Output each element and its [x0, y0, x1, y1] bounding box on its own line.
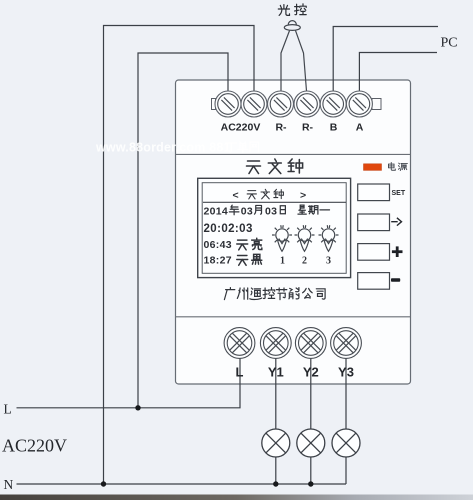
svg-text:B: B	[330, 122, 338, 134]
svg-text:R-: R-	[275, 122, 287, 134]
svg-text:PC: PC	[441, 36, 458, 51]
bottom edge bar	[0, 495, 473, 500]
terminal AC220V-L screw	[215, 91, 241, 117]
label -	[391, 278, 400, 281]
svg-text:<: <	[233, 189, 239, 201]
label ->	[391, 218, 401, 226]
button arrow	[358, 214, 390, 231]
terminal Y3 screw	[331, 328, 362, 359]
company name 广州通控节能公司	[224, 288, 325, 300]
junction dot on L line	[135, 405, 140, 410]
button minus	[358, 273, 390, 290]
button plus	[358, 244, 390, 261]
terminal R- left screw	[268, 91, 294, 117]
wire Y2 to lamp 2	[310, 359, 312, 430]
svg-text:L: L	[236, 365, 244, 380]
terminal strip top: left end tab	[212, 99, 216, 110]
label +	[392, 246, 403, 257]
svg-text:06:43: 06:43	[204, 239, 232, 251]
svg-text:Y2: Y2	[303, 365, 319, 380]
terminal L screw	[224, 328, 255, 359]
wire N line	[17, 483, 347, 485]
svg-text:SET: SET	[392, 190, 406, 197]
junction dot lamp1-N	[273, 481, 278, 486]
label 光控	[278, 4, 306, 16]
svg-text:A: A	[356, 122, 364, 134]
title 天文钟	[247, 159, 303, 174]
svg-text:AC220V: AC220V	[221, 122, 261, 134]
label 电源	[388, 163, 407, 171]
wire N route: N line up left side over to terminal AC220V-N	[104, 26, 255, 485]
svg-text:18:27: 18:27	[204, 255, 232, 267]
terminal Y2 screw	[295, 328, 326, 359]
divider lower	[176, 316, 411, 318]
terminal R- right screw	[294, 91, 320, 117]
terminal Y1 screw	[260, 328, 291, 359]
LCD display outer frame	[198, 178, 351, 277]
wire A to PC	[359, 53, 437, 92]
button SET	[358, 184, 390, 201]
LCD header separator	[203, 201, 346, 203]
power LED	[364, 164, 382, 171]
LCD display inner frame	[202, 183, 346, 274]
terminal AC220V-N screw	[241, 91, 267, 117]
svg-text:1: 1	[280, 256, 285, 267]
wire L line	[17, 358, 241, 408]
wire L route: L line up left side over to terminal AC220V-L	[138, 53, 228, 408]
lamp 2	[297, 429, 325, 457]
terminal strip top: right end tab	[372, 99, 381, 110]
svg-text:03: 03	[265, 205, 277, 217]
svg-text:2014: 2014	[204, 205, 229, 217]
LCD channel bulb icon 2	[295, 225, 315, 251]
junction dot lamp2-N	[308, 481, 313, 486]
lamp 1	[262, 429, 290, 457]
svg-text:Y3: Y3	[338, 365, 354, 380]
wire lamp3 to N	[345, 457, 347, 484]
svg-text:L: L	[4, 402, 12, 417]
wire lamp1 to N	[275, 457, 277, 484]
svg-text:N: N	[4, 477, 14, 492]
wire lamp2 to N	[310, 457, 312, 484]
svg-text:3: 3	[326, 256, 331, 267]
device body	[176, 80, 411, 384]
svg-text:Y1: Y1	[268, 365, 284, 380]
lamp 3	[332, 429, 360, 457]
svg-text:AC220V: AC220V	[2, 436, 67, 456]
LCD channel bulb icon 3	[319, 225, 339, 251]
terminal A screw	[346, 91, 372, 117]
svg-text:>: >	[300, 189, 306, 201]
photocell sensor symbol	[281, 21, 307, 91]
divider upper	[176, 153, 411, 155]
wire Y1 to lamp 1	[275, 359, 277, 430]
junction dot N riser	[101, 481, 106, 486]
svg-text:R-: R-	[302, 122, 314, 134]
svg-text:20:02:03: 20:02:03	[204, 223, 253, 235]
LCD channel bulb icon 1	[272, 225, 292, 251]
svg-text:03: 03	[241, 205, 253, 217]
svg-text:www.88order.com 881: www.88order.com 881	[95, 141, 231, 155]
wire Y3 to lamp 3	[345, 359, 347, 430]
wire B to PC	[333, 27, 438, 92]
terminal B screw	[320, 91, 346, 117]
svg-text:2: 2	[302, 256, 307, 267]
